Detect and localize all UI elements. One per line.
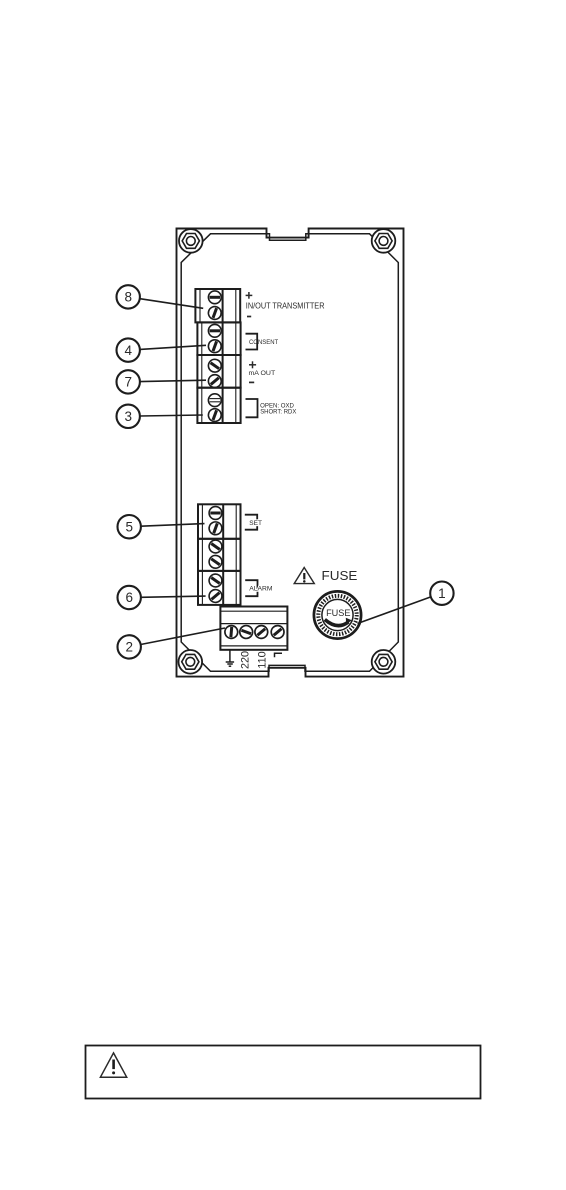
svg-text:1: 1 [438,586,446,601]
leader 2 [141,628,225,645]
panel inner face outline [181,234,398,672]
bracket SET [245,515,257,530]
svg-text:OPEN: OXD: OPEN: OXD [260,403,294,409]
callout circle 2 [118,635,141,658]
TB1 screw 2 [207,305,223,321]
corner bolt bottom-right [372,650,396,674]
TB6 screw 2 [207,553,225,571]
corner bolt bottom-left [179,650,203,674]
power screw 4 [269,623,287,641]
terminal block TB1 (IN/OUT TRANSMITTER) [195,289,240,322]
callout circle 4 [117,338,140,361]
corner bolt top-left [179,229,203,253]
terminal block TB6 (middle) [198,539,241,571]
TB2 screw 2 [207,338,223,354]
TB5 screw 1 [209,507,222,520]
terminal block TB7 (ALARM) [198,571,241,605]
svg-text:FUSE: FUSE [322,569,358,583]
leader 6 [141,596,206,597]
warning triangle (fuse) [294,568,314,584]
warning triangle (note box) [100,1053,126,1077]
bracket ALARM [245,580,257,596]
corner bolt top-right [372,229,396,253]
svg-text:220: 220 [239,651,251,669]
callout circle 5 [118,515,141,538]
bracket OPEN/SHORT [246,399,258,417]
leader 4 [140,345,206,349]
svg-text:SHORT: RDX: SHORT: RDX [260,410,296,416]
callout circle 7 [117,370,140,393]
L mark [275,653,283,657]
svg-text:mA OUT: mA OUT [249,370,276,377]
leader 7 [140,380,206,381]
panel outer outline [177,229,404,677]
svg-text:3: 3 [124,409,132,424]
svg-text:6: 6 [125,590,133,605]
svg-text:8: 8 [124,290,132,305]
label - (mA out) [249,381,254,383]
callout circle 1 [430,582,453,605]
callout circle 6 [118,586,141,609]
terminal block TB4 (OPEN/SHORT) [197,388,240,423]
leader 3 [140,415,203,416]
TB1 screw 1 [208,291,221,304]
svg-text:110: 110 [257,651,269,668]
leader 5 [141,524,205,527]
svg-text:IN/OUT TRANSMITTER: IN/OUT TRANSMITTER [246,301,325,311]
svg-text:5: 5 [125,519,133,534]
power screw 2 [238,624,254,640]
power screw 3 [252,623,270,641]
TB3 screw 2 [206,372,224,390]
svg-text:FUSE: FUSE [326,608,350,619]
svg-text:SET: SET [249,520,262,527]
power terminal block [220,607,287,650]
TB2 screw 1 [208,324,221,337]
fuse holder F1 [314,591,361,638]
label + (mA out) [249,361,256,368]
label - (transmitter) [247,316,251,318]
TB3 screw 1 [206,357,224,375]
exclamation (note box) [112,1060,115,1075]
label + (transmitter) [246,292,253,299]
leader 1 [358,597,431,624]
TB7 screw 1 [207,572,225,590]
TB5 screw 2 [207,520,223,536]
svg-text:4: 4 [124,343,132,358]
svg-text:7: 7 [124,375,132,390]
callout circle 8 [117,285,140,308]
svg-text:ALARM: ALARM [249,586,272,593]
bracket CONSENT [246,334,258,350]
terminal block TB3 (mA OUT) [197,355,240,388]
TB4 screw 2 [207,407,223,423]
TB7 screw 2 [206,587,224,605]
TB6 screw 1 [207,538,225,556]
terminal block TB5 (SET) [198,504,241,539]
terminal block TB2 (CONSENT) [197,322,240,355]
exclamation (fuse triangle) [303,573,306,583]
power screw 1 [224,625,238,639]
leader 8 [140,299,203,309]
svg-text:2: 2 [125,640,133,655]
svg-text:CONSENT: CONSENT [249,339,278,346]
TB4 screw 1 [208,394,221,407]
warning note box [86,1046,481,1099]
callout circle 3 [117,405,140,428]
ground symbol [226,650,234,666]
